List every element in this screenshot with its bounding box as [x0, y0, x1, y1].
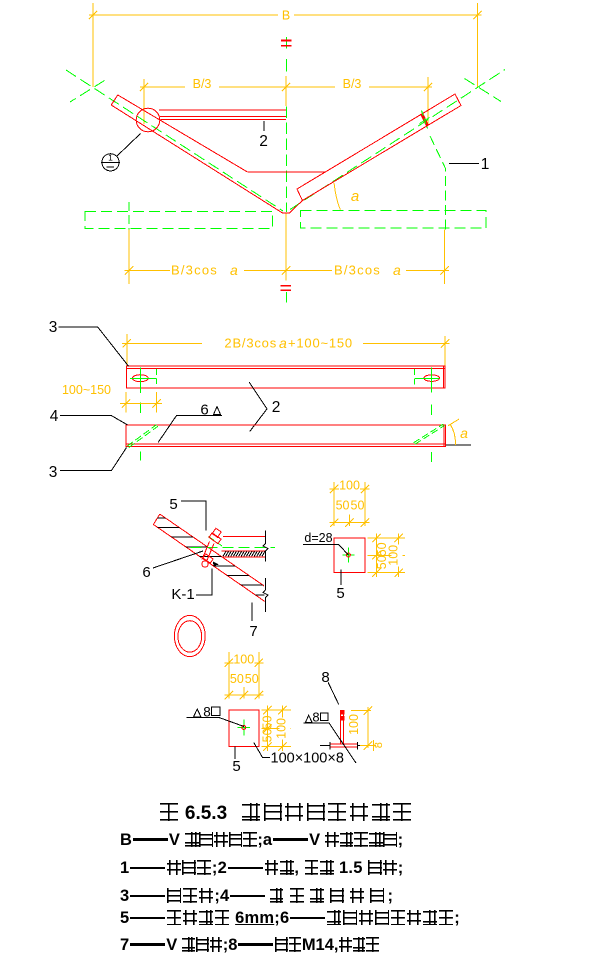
svg-text:d=28: d=28: [304, 531, 332, 545]
tie rod right inclined bar: [290, 94, 462, 213]
d=28 label: [303, 545, 348, 556]
svg-text:100: 100: [347, 714, 361, 735]
svg-text:3: 3: [49, 319, 58, 336]
oval hole right: [424, 375, 440, 382]
B/3cos a left extension line: [128, 230, 130, 285]
weld detail dimension 50 50 top: [224, 694, 263, 696]
oval hole detail inner ellipse: [178, 621, 202, 652]
svg-text:a: a: [230, 262, 238, 278]
left flange vertical dashed line: [128, 202, 130, 230]
lower bar right baseline: [446, 444, 471, 446]
label 3 top leader: [59, 327, 129, 366]
center axis bottom datum symbol: [281, 285, 291, 287]
left plate centerline (dashed): [66, 70, 283, 211]
K-1 break line top: [263, 531, 268, 562]
svg-text:8: 8: [203, 705, 211, 720]
angle steel 2 horizontal lines: [159, 109, 286, 111]
alpha slash extension: [448, 419, 459, 426]
svg-text:6: 6: [200, 402, 208, 419]
d28 detail dimension 100 right: [398, 533, 400, 577]
left flange dashed rectangle: [85, 212, 273, 229]
right corner cross dash: [465, 79, 502, 102]
tie rod horizontal top segment: [247, 171, 325, 173]
right plate centerline (dashed): [290, 70, 505, 210]
svg-text:50: 50: [261, 715, 275, 729]
svg-text:100: 100: [233, 653, 254, 667]
oval hole left: [132, 375, 148, 382]
K-1 angle leg hatched flange: [222, 550, 266, 552]
cut triangle mark right: [415, 426, 445, 445]
d28 bolt center cross: [347, 548, 349, 563]
svg-text:100: 100: [339, 479, 360, 493]
reserved hole circle left arm: [136, 108, 160, 132]
legend line 3: [120, 887, 393, 906]
angle steel lower bar outline: [126, 425, 446, 447]
d28 label 5 leader: [340, 569, 342, 585]
100~150 extension lines: [125, 392, 127, 413]
svg-text:3: 3: [49, 464, 58, 481]
center axis yellow extension to B/3cos dimension: [285, 214, 287, 281]
svg-text:2: 2: [259, 133, 268, 150]
cut triangle mark left: [127, 425, 156, 446]
svg-text:100~150: 100~150: [62, 383, 111, 397]
weld detail right extension lines: [261, 709, 291, 711]
svg-text:1: 1: [108, 153, 113, 163]
label 3 bottom leader: [60, 448, 127, 471]
dimension B extension line left: [92, 3, 94, 87]
svg-text:6: 6: [142, 564, 150, 581]
svg-text:4: 4: [50, 408, 59, 425]
dimension line B/3 left: [140, 86, 290, 88]
svg-text:a: a: [460, 425, 468, 441]
svg-text:B/3: B/3: [343, 77, 362, 91]
oval hole left centerlines: [130, 377, 157, 379]
label 2 leader: [263, 121, 265, 131]
K-1 V plate band outline: [153, 514, 264, 601]
B/3cos a right extension line: [444, 230, 446, 285]
dimension line 100~150: [120, 402, 162, 404]
svg-text:100: 100: [275, 718, 289, 739]
angle alpha line: [334, 183, 340, 210]
K-1 bolt head: [212, 528, 221, 537]
bolt side plate: [330, 743, 358, 745]
svg-text:100×100×8: 100×100×8: [271, 751, 344, 767]
bolt side label 8 leader: [328, 682, 339, 704]
weld detail dimension 50 50 right: [267, 706, 269, 752]
d28 bolt plate square: [334, 538, 365, 573]
dimension B/3 left extension line: [143, 79, 145, 124]
legend line 5: [120, 936, 380, 955]
weld triangle symbol: [214, 407, 221, 415]
svg-text:+100~150: +100~150: [288, 336, 353, 351]
K-1 weld arrow: [213, 562, 219, 567]
svg-text:50: 50: [351, 499, 365, 513]
svg-text:100: 100: [387, 545, 401, 566]
svg-text:8: 8: [321, 669, 329, 686]
label 6 leader (K-1): [153, 551, 203, 568]
legend line 2: [120, 859, 403, 878]
label 4 leader: [60, 416, 127, 425]
svg-text:K-1: K-1: [171, 586, 194, 603]
leader from detail mark to hole circle: [117, 134, 141, 157]
dashed line at 100-150 offset: [156, 369, 158, 384]
oval hole detail outer ellipse: [174, 615, 205, 656]
right flange vertical dashed line: [430, 136, 445, 230]
weld mark 8-square leader: [187, 718, 244, 727]
label 5 leader (K-1): [181, 501, 206, 531]
reserved hole mark on right bar: [420, 113, 429, 127]
d28 detail top extension lines: [333, 482, 335, 526]
bolt side double nuts (filled): [340, 710, 345, 714]
K-1 angle leg top edge: [223, 536, 265, 538]
svg-text:7: 7: [249, 623, 257, 640]
svg-text:50: 50: [261, 728, 275, 742]
weld detail top extension lines: [228, 652, 230, 699]
K-1 lower washer circle: [202, 561, 208, 567]
svg-text:5: 5: [336, 585, 344, 602]
weld detail center cross: [243, 720, 245, 736]
big dimension right extension: [444, 336, 446, 366]
weld mark triangle: [194, 709, 202, 717]
weld detail dimension 100 top: [224, 662, 263, 664]
weld mark square symbol: [212, 707, 221, 716]
svg-text:2B/3cos: 2B/3cos: [224, 336, 277, 351]
left corner cross dash: [70, 81, 105, 103]
K-1 band axis dash near bolt: [209, 537, 223, 547]
svg-text:B: B: [282, 9, 290, 23]
d28 detail dimension 100 top: [330, 488, 370, 490]
bolt side weld mark: [303, 723, 356, 763]
dimension B/3 right extension line: [427, 77, 429, 124]
legend line 1: [120, 831, 403, 850]
svg-text:8: 8: [312, 710, 319, 725]
bolt side shaft: [340, 710, 342, 744]
weld detail dimension 100 right: [282, 706, 284, 752]
angle steel inner fold line: [127, 368, 445, 370]
right flange dashed rectangle: [300, 211, 486, 228]
big dimension left extension: [126, 334, 128, 366]
detail mark circle: [102, 154, 119, 171]
bolt side dimension 8: [360, 745, 376, 747]
svg-text:2: 2: [272, 399, 281, 416]
angle steel inner end line right: [442, 366, 444, 388]
dimension line B/3 right: [282, 86, 432, 88]
oval hole right centerlines: [415, 378, 440, 380]
K-1 band break line bottom: [263, 578, 268, 612]
dimension line 2B/3cos a+100~150: [122, 342, 450, 344]
alpha arc: [450, 424, 456, 445]
figure caption 6.5.3: [158, 802, 413, 825]
bolt side plate end ticks: [329, 742, 331, 750]
center axis top datum symbol: [285, 37, 287, 49]
svg-text:8: 8: [373, 742, 385, 748]
svg-text:B/3: B/3: [193, 77, 212, 91]
label K-1 leader: [196, 569, 212, 596]
center axis dashed line: [285, 59, 287, 72]
svg-text:a: a: [279, 335, 287, 351]
legend line 4: [120, 909, 460, 928]
svg-text:50: 50: [336, 499, 350, 513]
svg-text:5: 5: [169, 496, 177, 513]
K-1 bolt nut with rubber pad: [209, 533, 221, 544]
label 7 leader: [251, 603, 253, 622]
dimension B/3 center extension: [285, 76, 287, 106]
green cross dashes at right hole: [420, 118, 430, 124]
angle steel top bar outline: [127, 366, 445, 388]
dimension line B: [89, 14, 482, 16]
dimension B extension line right: [477, 3, 479, 87]
K-1 centerline dashed: [191, 547, 275, 549]
svg-text:a: a: [351, 188, 359, 205]
weld detail square: [229, 710, 259, 747]
svg-text:1: 1: [481, 156, 490, 173]
d28 detail dimension 50 50 right: [375, 533, 377, 577]
K-1 lower nut: [203, 554, 213, 563]
label 1 leader: [449, 163, 479, 165]
bolt side dimension 100: [351, 710, 371, 712]
d28 detail dimension 50 50 top: [330, 522, 370, 524]
svg-text:B/3cos: B/3cos: [334, 263, 381, 278]
weld mark 6 leader: [158, 416, 222, 443]
weld detail label 5 leader: [234, 747, 236, 759]
svg-text:B/3cos: B/3cos: [171, 263, 218, 278]
svg-text:5: 5: [232, 758, 240, 775]
100x100x8 leader: [254, 742, 270, 757]
label 2 leader: [249, 382, 267, 431]
dimension line B/3cos a: [125, 269, 450, 271]
d28 detail right extension lines: [367, 537, 405, 539]
svg-text:a: a: [393, 262, 401, 278]
K-1 bolt shaft: [202, 542, 214, 562]
svg-text:50: 50: [245, 672, 259, 686]
V plate left arm: [111, 95, 247, 172]
svg-text:50: 50: [230, 672, 244, 686]
